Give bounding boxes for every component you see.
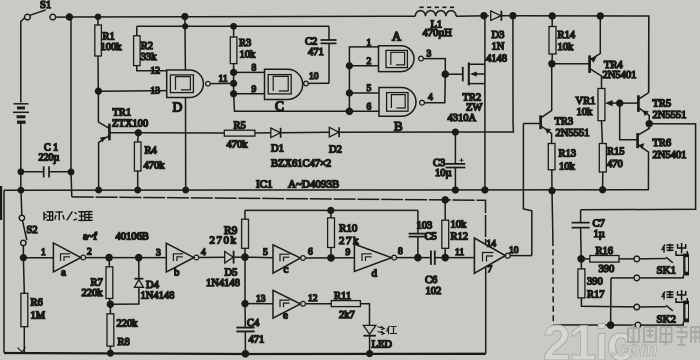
svg-text:6: 6: [308, 248, 313, 258]
svg-text:4: 4: [201, 248, 206, 258]
svg-text:390: 390: [599, 264, 615, 275]
switch SK2: [634, 304, 683, 328]
resistor R14 10k: [549, 16, 556, 64]
wire pin 2: [349, 65, 378, 67]
svg-text:470k: 470k: [227, 140, 249, 151]
wire TR2 gate: [445, 73, 462, 75]
label shuchu (output) 2 pseudo glyphs: [661, 290, 687, 302]
inverter a: [53, 243, 85, 272]
transistor TR6 2N5401: [638, 124, 650, 190]
node: D5 cathode / R9 bottom / e branch: [242, 254, 248, 260]
resistor R9 270k: [242, 210, 249, 257]
wire bus down from gate C inputs to gates A/B input (y111): [234, 94, 350, 112]
node: R14 bottom / TR4 base / TR3 collector: [549, 61, 555, 67]
diode D3 1N4148: [491, 11, 507, 21]
jack SK2: [683, 301, 689, 323]
svg-text:103: 103: [417, 221, 433, 232]
inverter b: [166, 243, 199, 272]
capacitor C1 220u: [21, 162, 71, 178]
svg-text:LED: LED: [372, 340, 393, 351]
svg-text:5: 5: [263, 248, 268, 258]
wire e branch down from D5 node: [244, 257, 246, 304]
svg-text:100k: 100k: [101, 42, 123, 53]
svg-text:9: 9: [252, 85, 257, 95]
node: R8 ground: [108, 350, 114, 356]
svg-text:R11: R11: [334, 291, 351, 302]
inverter 7 (buffer f with supply pins): [474, 238, 510, 354]
svg-text:ZTX100: ZTX100: [112, 119, 148, 130]
node: VR1 wiper / TR5 TR6 base bus: [617, 100, 623, 106]
svg-text:R16: R16: [596, 246, 614, 257]
svg-text:10k: 10k: [577, 107, 594, 118]
svg-text:471: 471: [308, 47, 324, 58]
svg-text:a~f: a~f: [83, 232, 97, 243]
transistor TR1 ZTX100: [98, 91, 138, 189]
wire gate D output 11: [210, 82, 233, 84]
nand gate B: [379, 88, 424, 117]
svg-text:d: d: [372, 268, 378, 280]
svg-text:12: 12: [151, 67, 161, 77]
potentiometer VR1 10k: [598, 89, 620, 144]
svg-text:A: A: [392, 30, 401, 44]
switch S2: [19, 190, 27, 258]
wire gate A output 3 to TR2 gate node: [423, 59, 445, 75]
node: R12 bottom / pin 11: [442, 255, 448, 261]
node: C1 right junction: [68, 169, 73, 174]
wire R5 to D1: [255, 132, 271, 134]
wire pin 8: [234, 71, 265, 73]
resistor R12 10k: [442, 200, 449, 258]
node: C3 top: [453, 129, 459, 135]
svg-text:D1: D1: [271, 144, 284, 155]
svg-text:SK2: SK2: [657, 314, 677, 326]
node: D3 cathode: [510, 13, 516, 19]
diode D1: [271, 128, 281, 138]
box left edge: [3, 190, 5, 352]
inverter c: [273, 245, 305, 273]
diode D4 1N4148: [110, 258, 143, 305]
node: C7 / R16 / R17: [578, 256, 584, 262]
node: ground R13 / output drop: [549, 188, 555, 194]
wire S1 left contact to battery top: [21, 18, 25, 103]
svg-text:3: 3: [156, 249, 161, 259]
svg-text:2: 2: [87, 248, 92, 258]
resistor R7 220k: [106, 258, 113, 305]
wire feedback line y26 (R2 top to C2 top): [137, 25, 329, 27]
capacitor C4 471: [236, 304, 254, 354]
svg-text:R3: R3: [239, 38, 251, 49]
svg-text:TR6: TR6: [653, 138, 672, 149]
svg-text:C4: C4: [247, 318, 260, 329]
transistor TR4 2N5401: [590, 16, 602, 89]
svg-text:8: 8: [252, 64, 257, 74]
nand gate A: [379, 46, 424, 72]
wire S2 to inverter a input: [23, 257, 53, 259]
svg-text:470k: 470k: [144, 161, 166, 172]
svg-text:1: 1: [41, 248, 46, 258]
mosfet TR2 ZW4310A: [463, 16, 485, 190]
resistor R13 10k: [548, 144, 555, 191]
jack SK1: [683, 254, 689, 276]
svg-text:471: 471: [249, 335, 265, 346]
node: e input branch: [242, 301, 248, 307]
svg-text:C7: C7: [593, 219, 605, 230]
svg-text:220k: 220k: [82, 288, 104, 299]
label hong (red) pseudo glyph: [386, 326, 397, 334]
svg-text:TR5: TR5: [653, 99, 672, 110]
label maichong/lianxu (pulse/continuous) pseudo glyphs: [44, 211, 93, 220]
node: ground TR2 source: [482, 187, 488, 193]
node: R10 bottom: [328, 255, 334, 261]
svg-text:10: 10: [309, 72, 319, 82]
node: ground IC vss stub: [183, 187, 188, 192]
resistor R11 2k7 (horizontal): [331, 301, 360, 307]
svg-text:R10: R10: [339, 223, 358, 235]
svg-text:e: e: [283, 310, 288, 322]
inverter d: [354, 244, 396, 271]
wire inverter 7 output: [510, 255, 532, 257]
svg-text:TR3: TR3: [555, 117, 574, 128]
svg-text:C2: C2: [305, 37, 317, 48]
node: input bus pin6: [346, 108, 352, 114]
node: battery / C1 junction: [18, 169, 23, 174]
watermark zhongguo dianziwang pseudo glyphs: [628, 325, 700, 345]
svg-text:10k: 10k: [240, 50, 257, 61]
svg-text:D: D: [173, 100, 183, 115]
wire gates A/B input bus x349: [349, 47, 378, 111]
svg-text:B: B: [394, 119, 403, 134]
node: R10 top: [328, 208, 334, 214]
node: S2 / R6 / inverter a: [21, 255, 27, 261]
svg-text:R12: R12: [451, 232, 469, 243]
wire battery bottom to ground rail: [20, 124, 22, 191]
svg-text:D5: D5: [225, 268, 238, 279]
wire IC vdd stub x185 (rail to gate D top): [184, 17, 187, 71]
svg-text:7: 7: [488, 265, 493, 275]
svg-text:C5: C5: [425, 232, 437, 243]
svg-text:BZX61C47×2: BZX61C47×2: [271, 159, 331, 170]
wire TR1 base line to R5: [138, 132, 224, 134]
box bottom rail: [4, 353, 486, 354]
inductor L1 470uH: [415, 7, 456, 16]
svg-text:R8: R8: [118, 337, 130, 348]
node: input bus pin5: [347, 90, 353, 96]
svg-text:4148: 4148: [486, 54, 507, 65]
svg-text:470: 470: [607, 159, 623, 170]
svg-text:4310A: 4310A: [448, 113, 477, 124]
svg-text:6: 6: [367, 103, 372, 113]
svg-text:8: 8: [398, 247, 403, 257]
resistor R2 33k: [134, 26, 167, 71]
svg-text:2: 2: [367, 57, 372, 67]
wire pin 9: [234, 93, 265, 95]
resistor R16 390 (horizontal): [581, 256, 634, 263]
svg-text:D4: D4: [146, 280, 160, 291]
resistor R1 100k: [95, 17, 102, 91]
wire D1 to D2: [281, 131, 330, 134]
svg-text:14: 14: [487, 240, 497, 250]
resistor R17 390 (vertical): [578, 259, 634, 307]
svg-text:C6: C6: [425, 275, 437, 286]
svg-text:4: 4: [428, 93, 433, 103]
wire S1 right contact to top rail: [56, 16, 66, 18]
node: ground TR1 emitter: [96, 187, 101, 192]
node: C5 bottom: [415, 255, 421, 261]
svg-text:9: 9: [346, 248, 351, 258]
node: SK ground bus: [608, 322, 614, 328]
wire pin 5: [349, 92, 379, 94]
node: TR2 gate: [442, 71, 448, 77]
transistor TR3 2N5551: [523, 64, 551, 144]
resistor R5 470k (horizontal): [224, 130, 255, 136]
wire e output to R11: [305, 303, 331, 305]
capacitor C6 102: [431, 251, 474, 265]
node: R7/R8/D4: [107, 301, 113, 307]
wire d output to C6: [397, 257, 431, 259]
scan artifact: left edge mark: [0, 186, 2, 220]
node: stub crosses y26 line: [183, 24, 188, 29]
node: ground battery/S2: [18, 188, 23, 193]
LED red: [363, 325, 384, 353]
wire TR4 base: [552, 63, 590, 65]
battery B1: [13, 104, 29, 122]
svg-text:TR1: TR1: [113, 108, 132, 119]
svg-text:c: c: [284, 264, 289, 276]
node: ground R15: [600, 187, 606, 193]
svg-text:12: 12: [308, 294, 318, 304]
diode D5 1N4148: [225, 251, 245, 264]
wire b output to D5: [199, 256, 225, 258]
svg-text:40106B: 40106B: [116, 232, 149, 243]
wire gate C output 10 to C2 bottom: [308, 82, 329, 84]
wire IC vss stub (gate D bottom to ground rail): [185, 98, 187, 191]
switch S1: [25, 10, 56, 20]
capacitor C5 103: [409, 210, 428, 257]
svg-text:S2: S2: [27, 225, 38, 236]
node: D4 top: [136, 255, 142, 261]
resistor R10 27k: [328, 210, 335, 258]
node: line A R12 top: [442, 197, 448, 203]
capacitor C2 471: [321, 26, 337, 83]
svg-text:R13: R13: [559, 149, 577, 160]
svg-text:a: a: [61, 267, 66, 279]
ground rail y190: [4, 189, 649, 191]
switch SK1: [611, 256, 684, 325]
transistor TR5 2N5551: [620, 16, 650, 124]
node: D3 anode / TR2 drain: [481, 13, 487, 19]
nand gate C: [265, 69, 309, 99]
svg-text:11: 11: [219, 75, 228, 85]
wire D5 node to inverter c: [245, 256, 273, 259]
svg-text:33k: 33k: [141, 52, 158, 63]
node: input bus pin2: [347, 63, 353, 69]
svg-text:2N5401: 2N5401: [603, 70, 637, 81]
svg-text:IC1: IC1: [256, 179, 273, 191]
svg-text:ZW: ZW: [466, 103, 482, 114]
resistor R6 1M: [21, 258, 28, 353]
node: rail junction R1 top: [95, 14, 100, 19]
svg-text:5: 5: [367, 84, 372, 94]
svg-text:VR1: VR1: [576, 96, 596, 107]
svg-text:R17: R17: [587, 290, 605, 301]
resistor R8 220k: [107, 304, 114, 353]
svg-text:470µH: 470µH: [423, 28, 453, 39]
svg-text:1N: 1N: [492, 42, 505, 53]
svg-text:10: 10: [509, 246, 519, 256]
wire gate B output 4 to TR2 gate node: [424, 74, 445, 103]
svg-text:R2: R2: [141, 41, 153, 52]
svg-text:270k: 270k: [210, 235, 238, 247]
svg-text:R7: R7: [91, 278, 103, 289]
svg-text:10k: 10k: [558, 42, 575, 53]
svg-text:390: 390: [587, 277, 603, 288]
node: output 11 / R3 bottom bus: [231, 70, 237, 76]
wire base bus down to TR6: [620, 103, 638, 140]
svg-text:D3: D3: [492, 30, 505, 41]
node: TR1 base / R4 top: [135, 130, 141, 136]
nand gate D: [167, 70, 211, 98]
wire supply drop x71 (top rail through C1 down to 40106 vdd line): [70, 19, 73, 197]
node: R3 top on y26 line: [231, 24, 236, 29]
wire output section ground drop: [551, 191, 554, 240]
wire a output to b input: [86, 257, 167, 259]
node: R1 bottom / pin13 / TR1 collector: [96, 88, 102, 94]
label shuchu (output) 1 pseudo glyphs: [661, 243, 687, 255]
svg-text:2N5401: 2N5401: [653, 150, 687, 161]
wire inverter7 output feedback up to TR3 base: [523, 124, 531, 256]
svg-text:SK1: SK1: [657, 265, 677, 277]
wire to inverter e: [245, 303, 273, 305]
svg-text:R14: R14: [558, 30, 576, 41]
wire R11 to LED: [360, 304, 369, 325]
svg-text:13: 13: [256, 295, 266, 305]
node: C4 ground: [242, 351, 248, 357]
svg-text:R4: R4: [145, 146, 158, 157]
svg-text:b: b: [174, 267, 180, 279]
svg-text:2N5551: 2N5551: [653, 110, 687, 121]
svg-text:10k: 10k: [559, 162, 576, 173]
node: rail TR4 emitter: [597, 13, 603, 19]
capacitor C7 1u: [572, 210, 590, 259]
svg-text:220k: 220k: [117, 319, 139, 330]
wire RC top line y210: [245, 209, 418, 211]
svg-text:1: 1: [367, 39, 372, 49]
wire pin 6: [349, 110, 379, 112]
svg-text:13: 13: [151, 87, 161, 97]
resistor R3 10k: [230, 26, 237, 95]
40106 vdd line A: [72, 197, 486, 244]
node: rail junction x69: [66, 14, 72, 20]
svg-text:2k7: 2k7: [339, 310, 355, 321]
wire pin 13 to gate D: [98, 90, 166, 93]
svg-text:R15: R15: [607, 147, 625, 158]
svg-text:11: 11: [455, 248, 464, 258]
svg-text:A~D4093B: A~D4093B: [288, 179, 339, 191]
node: R7 top: [106, 255, 112, 261]
node: ground R4: [135, 187, 140, 192]
diode D2: [329, 127, 339, 137]
node: LED ground: [367, 351, 373, 357]
svg-text:3: 3: [427, 50, 432, 60]
wire TR5/TR6 node to right edge drop: [581, 124, 696, 210]
svg-text:R6: R6: [31, 298, 43, 309]
resistor R4 470k: [134, 133, 141, 190]
node: ground C3: [453, 187, 459, 193]
svg-text:220µ: 220µ: [39, 153, 60, 164]
top supply rail: [66, 16, 649, 92]
svg-text:1M: 1M: [31, 311, 46, 322]
wire rectified feedback line y132 to D3 cathode drop: [339, 19, 513, 133]
node: rail R14 top: [549, 13, 555, 19]
svg-text:2N5551: 2N5551: [556, 128, 590, 139]
svg-text:10µ: 10µ: [435, 168, 452, 179]
capacitor C3 10u: [446, 132, 466, 190]
inverter e: [273, 290, 305, 318]
svg-text:102: 102: [426, 286, 442, 297]
node: TR5 emitter / TR6 collector: [646, 121, 652, 127]
resistor R15 470: [599, 144, 606, 190]
node: rail junction IC vdd stub: [182, 14, 188, 20]
svg-text:R5: R5: [234, 121, 246, 132]
svg-text:1N4148: 1N4148: [141, 291, 175, 302]
svg-text:1N4148: 1N4148: [206, 278, 240, 289]
scan tick at R6 ground: [18, 347, 26, 353]
svg-text:10k: 10k: [451, 220, 468, 231]
svg-text:1µ: 1µ: [594, 229, 605, 240]
wire c output to d input: [305, 257, 354, 259]
svg-text:D2: D2: [329, 145, 342, 156]
